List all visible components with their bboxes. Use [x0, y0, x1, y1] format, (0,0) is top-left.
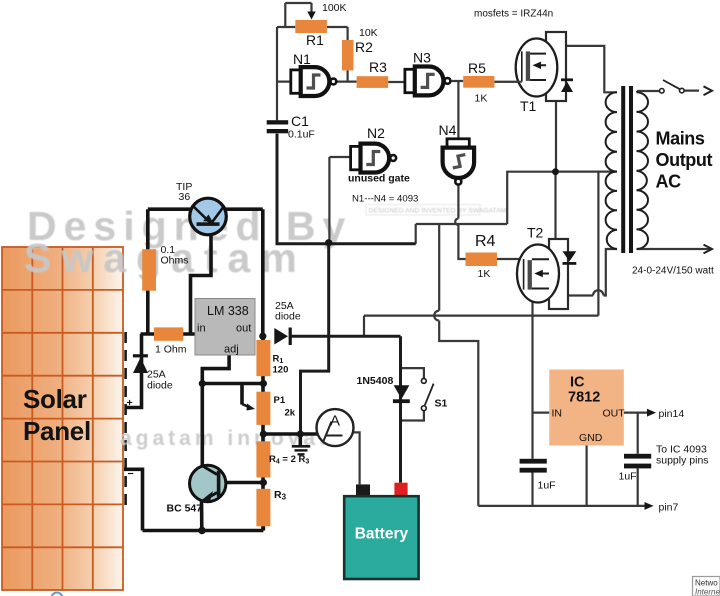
svg-text:7812: 7812	[568, 390, 600, 406]
svg-text:IN: IN	[552, 408, 563, 420]
svg-text:diode: diode	[147, 380, 173, 392]
svg-text:2k: 2k	[285, 408, 296, 419]
svg-text:R2: R2	[355, 39, 373, 55]
svg-text:Ohms: Ohms	[161, 255, 189, 267]
svg-text:Interne: Interne	[695, 588, 720, 596]
svg-text:unused gate: unused gate	[348, 173, 410, 185]
svg-text:GND: GND	[579, 432, 603, 444]
svg-text:R4 = 2 R3: R4 = 2 R3	[269, 454, 309, 466]
svg-text:36: 36	[179, 191, 191, 203]
svg-text:diode: diode	[275, 311, 301, 323]
svg-text:Panel: Panel	[23, 416, 91, 446]
svg-text:AC: AC	[656, 172, 682, 192]
svg-text:1uF: 1uF	[538, 480, 556, 492]
svg-text:adj: adj	[224, 344, 239, 356]
svg-text:Output: Output	[656, 150, 713, 170]
svg-text:Netwo: Netwo	[695, 579, 718, 588]
svg-text:N1: N1	[293, 51, 311, 67]
svg-text:mosfets = IRZ44n: mosfets = IRZ44n	[474, 9, 553, 20]
svg-text:100K: 100K	[322, 2, 347, 14]
svg-text:IC: IC	[570, 375, 585, 391]
svg-text:−: −	[128, 468, 134, 480]
svg-text:1N5408: 1N5408	[357, 375, 394, 387]
svg-text:out: out	[236, 323, 251, 335]
svg-text:T1: T1	[520, 98, 537, 114]
svg-text:C1: C1	[291, 113, 309, 129]
svg-text:N2: N2	[367, 125, 385, 141]
svg-text:supply pins: supply pins	[656, 455, 709, 467]
svg-text:DESIGNED AND INVENTED BY SWAGA: DESIGNED AND INVENTED BY SWAGATAM	[369, 208, 507, 215]
svg-text:P1: P1	[274, 395, 286, 406]
svg-text:0.1uF: 0.1uF	[288, 129, 315, 141]
svg-text:R5: R5	[468, 60, 486, 76]
svg-text:pin14: pin14	[659, 408, 685, 420]
svg-text:120: 120	[273, 365, 289, 376]
svg-text:pin7: pin7	[659, 502, 679, 514]
svg-text:LM 338: LM 338	[207, 304, 249, 318]
svg-text:R1: R1	[306, 32, 324, 48]
svg-text:N1---N4 = 4093: N1---N4 = 4093	[352, 194, 418, 205]
svg-text:R4: R4	[475, 233, 496, 250]
svg-text:N4: N4	[439, 122, 457, 138]
svg-text:1K: 1K	[478, 268, 491, 280]
svg-text:BC 547: BC 547	[167, 503, 203, 515]
svg-text:R3: R3	[369, 59, 387, 75]
svg-text:T2: T2	[527, 225, 544, 241]
svg-text:Mains: Mains	[656, 129, 705, 149]
svg-text:in: in	[197, 323, 206, 335]
svg-text:S1: S1	[435, 398, 448, 410]
svg-text:1uF: 1uF	[619, 471, 637, 483]
svg-text:A: A	[330, 413, 340, 430]
svg-text:1 Ohm: 1 Ohm	[155, 344, 187, 356]
svg-text:+: +	[127, 397, 133, 409]
svg-text:10K: 10K	[359, 27, 378, 39]
svg-text:Battery: Battery	[355, 526, 409, 543]
svg-text:Solar: Solar	[23, 384, 87, 414]
svg-text:OUT: OUT	[603, 408, 626, 420]
svg-text:24-0-24V/150 watt: 24-0-24V/150 watt	[632, 266, 714, 277]
svg-text:1K: 1K	[475, 93, 488, 105]
svg-text:N3: N3	[413, 50, 431, 66]
